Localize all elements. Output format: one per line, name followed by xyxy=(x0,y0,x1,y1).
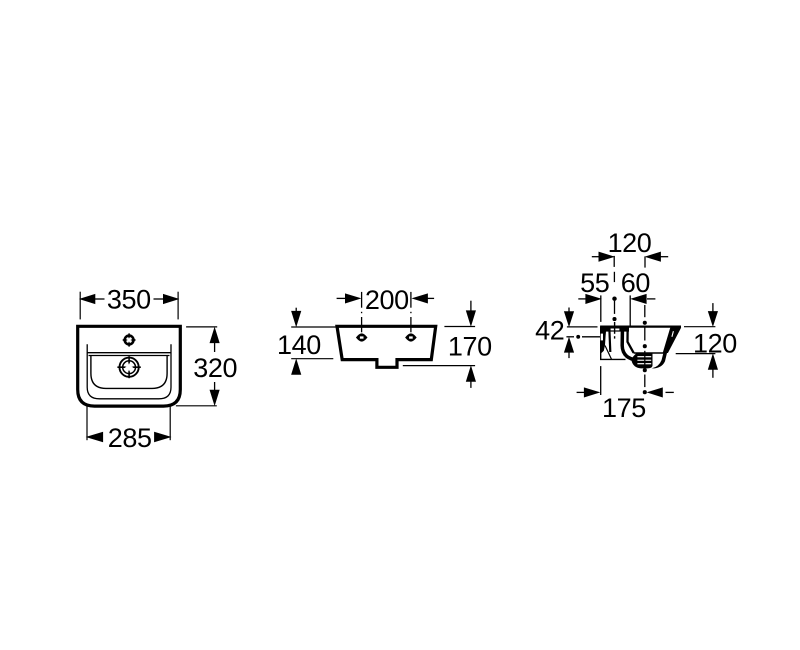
back wall inner slant line xyxy=(605,346,612,360)
dimension 350 extension line right xyxy=(177,292,179,320)
section bottom edge xyxy=(600,358,626,360)
dimension 60 arrow xyxy=(632,295,656,304)
dimension 140 bottom extension line xyxy=(291,358,333,360)
tap centerline (dash-dot above) xyxy=(613,256,616,321)
front view bowl outline xyxy=(91,355,167,388)
drain centerline (dash-dot) xyxy=(643,256,646,393)
drain trap body with ribs xyxy=(631,353,652,369)
dimension 320 bottom extension line xyxy=(176,405,217,407)
svg-text:320: 320 xyxy=(193,353,237,383)
dimension 140 top extension line xyxy=(291,326,337,328)
svg-text:350: 350 xyxy=(107,284,151,314)
drain symbol xyxy=(117,356,140,378)
svg-text:175: 175 xyxy=(602,393,646,423)
dimension 120 right bottom arrow xyxy=(709,355,718,378)
front view outer outline xyxy=(78,326,181,406)
fixing hole right xyxy=(405,333,417,341)
dimension 170 bottom arrow xyxy=(467,367,476,388)
dimension 175 left arrow xyxy=(577,388,599,397)
dimension 120 right bottom extension line xyxy=(676,353,716,355)
tap centerline crossing xyxy=(614,322,616,334)
dimension 42 top arrow xyxy=(565,308,574,326)
svg-text:42: 42 xyxy=(535,316,564,346)
dimension 42 bottom arrow xyxy=(565,338,574,358)
svg-text:170: 170 xyxy=(448,332,492,362)
dimension 200 left arrow xyxy=(337,294,360,303)
dimension 140 top arrow xyxy=(292,308,301,326)
dimension 320 top arrow xyxy=(210,328,219,352)
svg-text:120: 120 xyxy=(608,228,652,258)
svg-text:200: 200 xyxy=(365,285,409,315)
bowl floor line xyxy=(634,352,665,354)
dimension 140 bottom arrow xyxy=(292,360,301,374)
dimension 285 extension line left xyxy=(86,406,88,441)
middle view outline with mounting tab xyxy=(337,326,436,367)
dimension 120 right top arrow xyxy=(709,303,718,325)
svg-text:60: 60 xyxy=(621,268,650,298)
dimension 350 extension line left xyxy=(79,292,81,320)
dimension 285 right arrow xyxy=(155,432,170,441)
tap hole symbol xyxy=(123,333,136,346)
front wall highlight slit xyxy=(672,331,674,337)
drain right wall xyxy=(652,353,667,369)
dimension 170 top extension line xyxy=(444,326,475,328)
tap hole white center star xyxy=(126,337,132,343)
dimension 175 left extension line xyxy=(600,366,602,395)
dimension 200 right arrow xyxy=(413,294,434,303)
dimension 320 top extension line xyxy=(186,326,217,328)
svg-text:120: 120 xyxy=(693,328,737,358)
dimension 285 left arrow xyxy=(87,432,102,441)
section top edge xyxy=(600,326,681,328)
side view 60 extension line xyxy=(629,295,631,326)
deck band with overflow slots xyxy=(606,328,629,332)
back wall cut (black wedge) xyxy=(600,328,606,353)
dimension 120 top right arrow xyxy=(646,252,668,261)
side view back wall extension line (upper) xyxy=(600,295,602,322)
bowl back wall (J-shaped cut) xyxy=(622,331,641,361)
back wall front face line xyxy=(609,328,610,353)
dimension 120 top left arrow xyxy=(592,252,613,261)
front wall cut (slanted band) xyxy=(663,328,682,354)
dimension 350 right arrow xyxy=(154,295,178,304)
front view inner wall outline xyxy=(87,344,171,399)
back wall fixing hole slot xyxy=(601,334,603,341)
svg-text:285: 285 xyxy=(108,423,152,453)
dimension 350 left arrow xyxy=(81,295,105,304)
svg-text:140: 140 xyxy=(277,330,321,360)
dimension 170 top arrow xyxy=(467,301,476,325)
dimension 175 right arrow xyxy=(648,388,674,397)
overflow inner wall xyxy=(628,331,634,353)
front view rim upper line xyxy=(87,352,171,354)
left hole centerline xyxy=(361,292,363,332)
section left edge xyxy=(600,327,602,360)
svg-text:55: 55 xyxy=(580,268,609,298)
dimension 320 bottom arrow xyxy=(210,382,219,404)
dimension 42 top extension line xyxy=(567,326,598,328)
dimension 170 bottom extension line xyxy=(403,365,475,367)
hole centerline horizontal (dash-dot) xyxy=(566,336,600,339)
dimension 55 arrow xyxy=(578,295,600,304)
drain white center star xyxy=(125,363,134,372)
dimension 120 right top extension line xyxy=(684,326,715,328)
right hole centerline xyxy=(410,292,412,332)
front view rim lower line xyxy=(89,355,170,357)
fixing hole left xyxy=(356,333,368,341)
dimension 285 extension line right xyxy=(169,406,171,441)
